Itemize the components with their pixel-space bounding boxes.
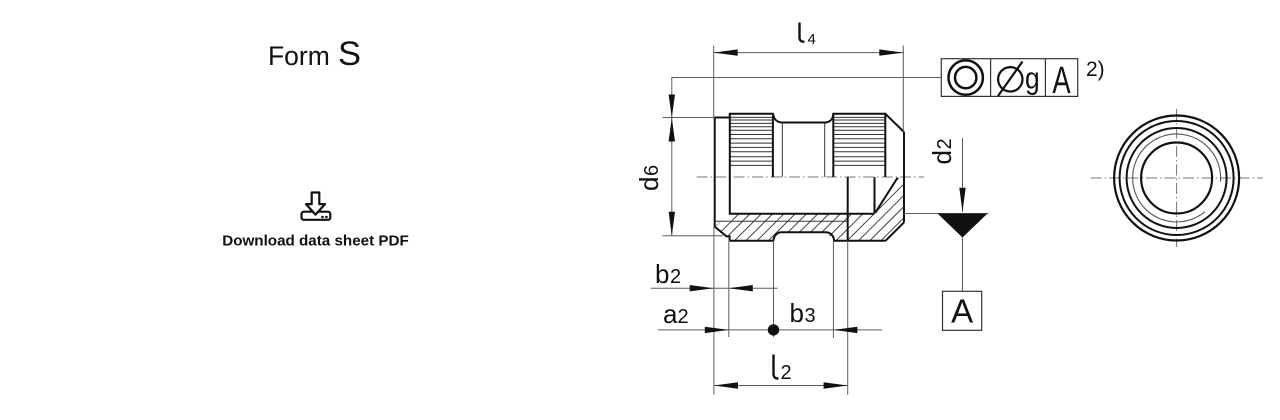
download icon [302, 193, 331, 220]
l2 right arrow [824, 382, 848, 388]
third circle [1127, 128, 1227, 228]
d2 extension [904, 213, 988, 215]
leader to tolerance frame [672, 78, 942, 116]
bottom edge right [834, 240, 886, 242]
groove floor with fillets [773, 114, 833, 123]
b2 left arrow [690, 285, 714, 291]
d6 bottom arrow down [669, 212, 675, 236]
d6 top arrow up [669, 118, 675, 142]
knurl lines right band [833, 117, 885, 165]
d6 extension bottom [663, 235, 724, 237]
l4 extension lines [713, 46, 715, 118]
bottom edge left [730, 240, 774, 242]
slot bump [774, 232, 835, 241]
top right chamfer [885, 114, 904, 132]
b3 arrow [833, 327, 857, 333]
svg-text:2: 2 [678, 306, 689, 328]
a2 arrow [705, 327, 729, 333]
diameter g [998, 62, 1040, 97]
l4 dimension line [714, 52, 904, 54]
svg-text:2: 2 [781, 362, 792, 384]
centerline main view [697, 176, 925, 178]
svg-text:Form: Form [268, 41, 330, 71]
bottom right chamfer [886, 222, 905, 240]
datum leader [962, 238, 964, 292]
hatch section cut [660, 130, 1003, 270]
svg-text:2: 2 [670, 266, 681, 288]
origin dot [768, 324, 779, 335]
a2 b3 dimension line [658, 329, 882, 331]
knurl lines left band [730, 117, 773, 165]
crosshair vertical [1176, 109, 1178, 247]
counterbore wall [874, 177, 876, 213]
svg-text:A: A [951, 293, 973, 330]
left face [714, 118, 716, 227]
groove tangent thin lines [781, 123, 783, 178]
label l2 [774, 355, 792, 385]
label d6 (rotated) [634, 165, 664, 191]
right face [903, 132, 905, 222]
d6 extension top [663, 117, 715, 119]
label d2 (rotated) [927, 138, 957, 164]
concentricity symbol [949, 60, 983, 94]
crosshair horizontal [1091, 177, 1263, 179]
svg-text:2): 2) [1086, 58, 1105, 81]
second circle [1120, 121, 1234, 235]
step bottom left [715, 227, 730, 241]
svg-text:3: 3 [805, 305, 816, 327]
l4 left arrow [714, 49, 738, 55]
heading Form S [268, 35, 361, 73]
svg-text:Download data sheet PDF: Download data sheet PDF [222, 233, 409, 250]
right knurl band [833, 114, 885, 177]
collar top [714, 117, 730, 119]
body outline bold [714, 114, 904, 241]
d6 dimension line [671, 115, 673, 236]
svg-text:d: d [927, 150, 957, 164]
l2 dimension line [714, 385, 848, 387]
lower extension lines [713, 227, 715, 395]
svg-text:d: d [634, 177, 664, 191]
b2 right arrow [729, 285, 753, 291]
datum triangle [938, 214, 988, 238]
svg-text:4: 4 [808, 31, 816, 48]
b2 dimension line [651, 287, 778, 289]
bore bottom line [729, 213, 875, 215]
thread circle thin arc [1133, 134, 1221, 222]
svg-text:g: g [1025, 62, 1040, 96]
svg-text:b: b [790, 298, 804, 328]
internal chamfer [875, 178, 897, 213]
datum box A [943, 291, 982, 330]
svg-text:a: a [663, 299, 678, 329]
left knurl band edges and top [730, 114, 773, 177]
arrows (filled) [669, 49, 988, 388]
l2 left arrow [714, 382, 738, 388]
l4 right arrow [879, 49, 903, 55]
svg-text:6: 6 [641, 165, 663, 176]
inner circle bore [1141, 143, 1212, 214]
thread end line [847, 177, 849, 241]
thread major diameter thin line [715, 220, 848, 222]
leader arrow down [669, 95, 675, 118]
svg-text:b: b [655, 259, 669, 289]
d2 arrow down [959, 188, 965, 212]
svg-text:2: 2 [934, 138, 956, 149]
label l4 [800, 23, 816, 49]
svg-text:S: S [338, 35, 361, 73]
svg-text:A: A [1052, 60, 1071, 102]
d2 dimension line [962, 138, 964, 212]
outer circle knurl od [1114, 116, 1239, 241]
